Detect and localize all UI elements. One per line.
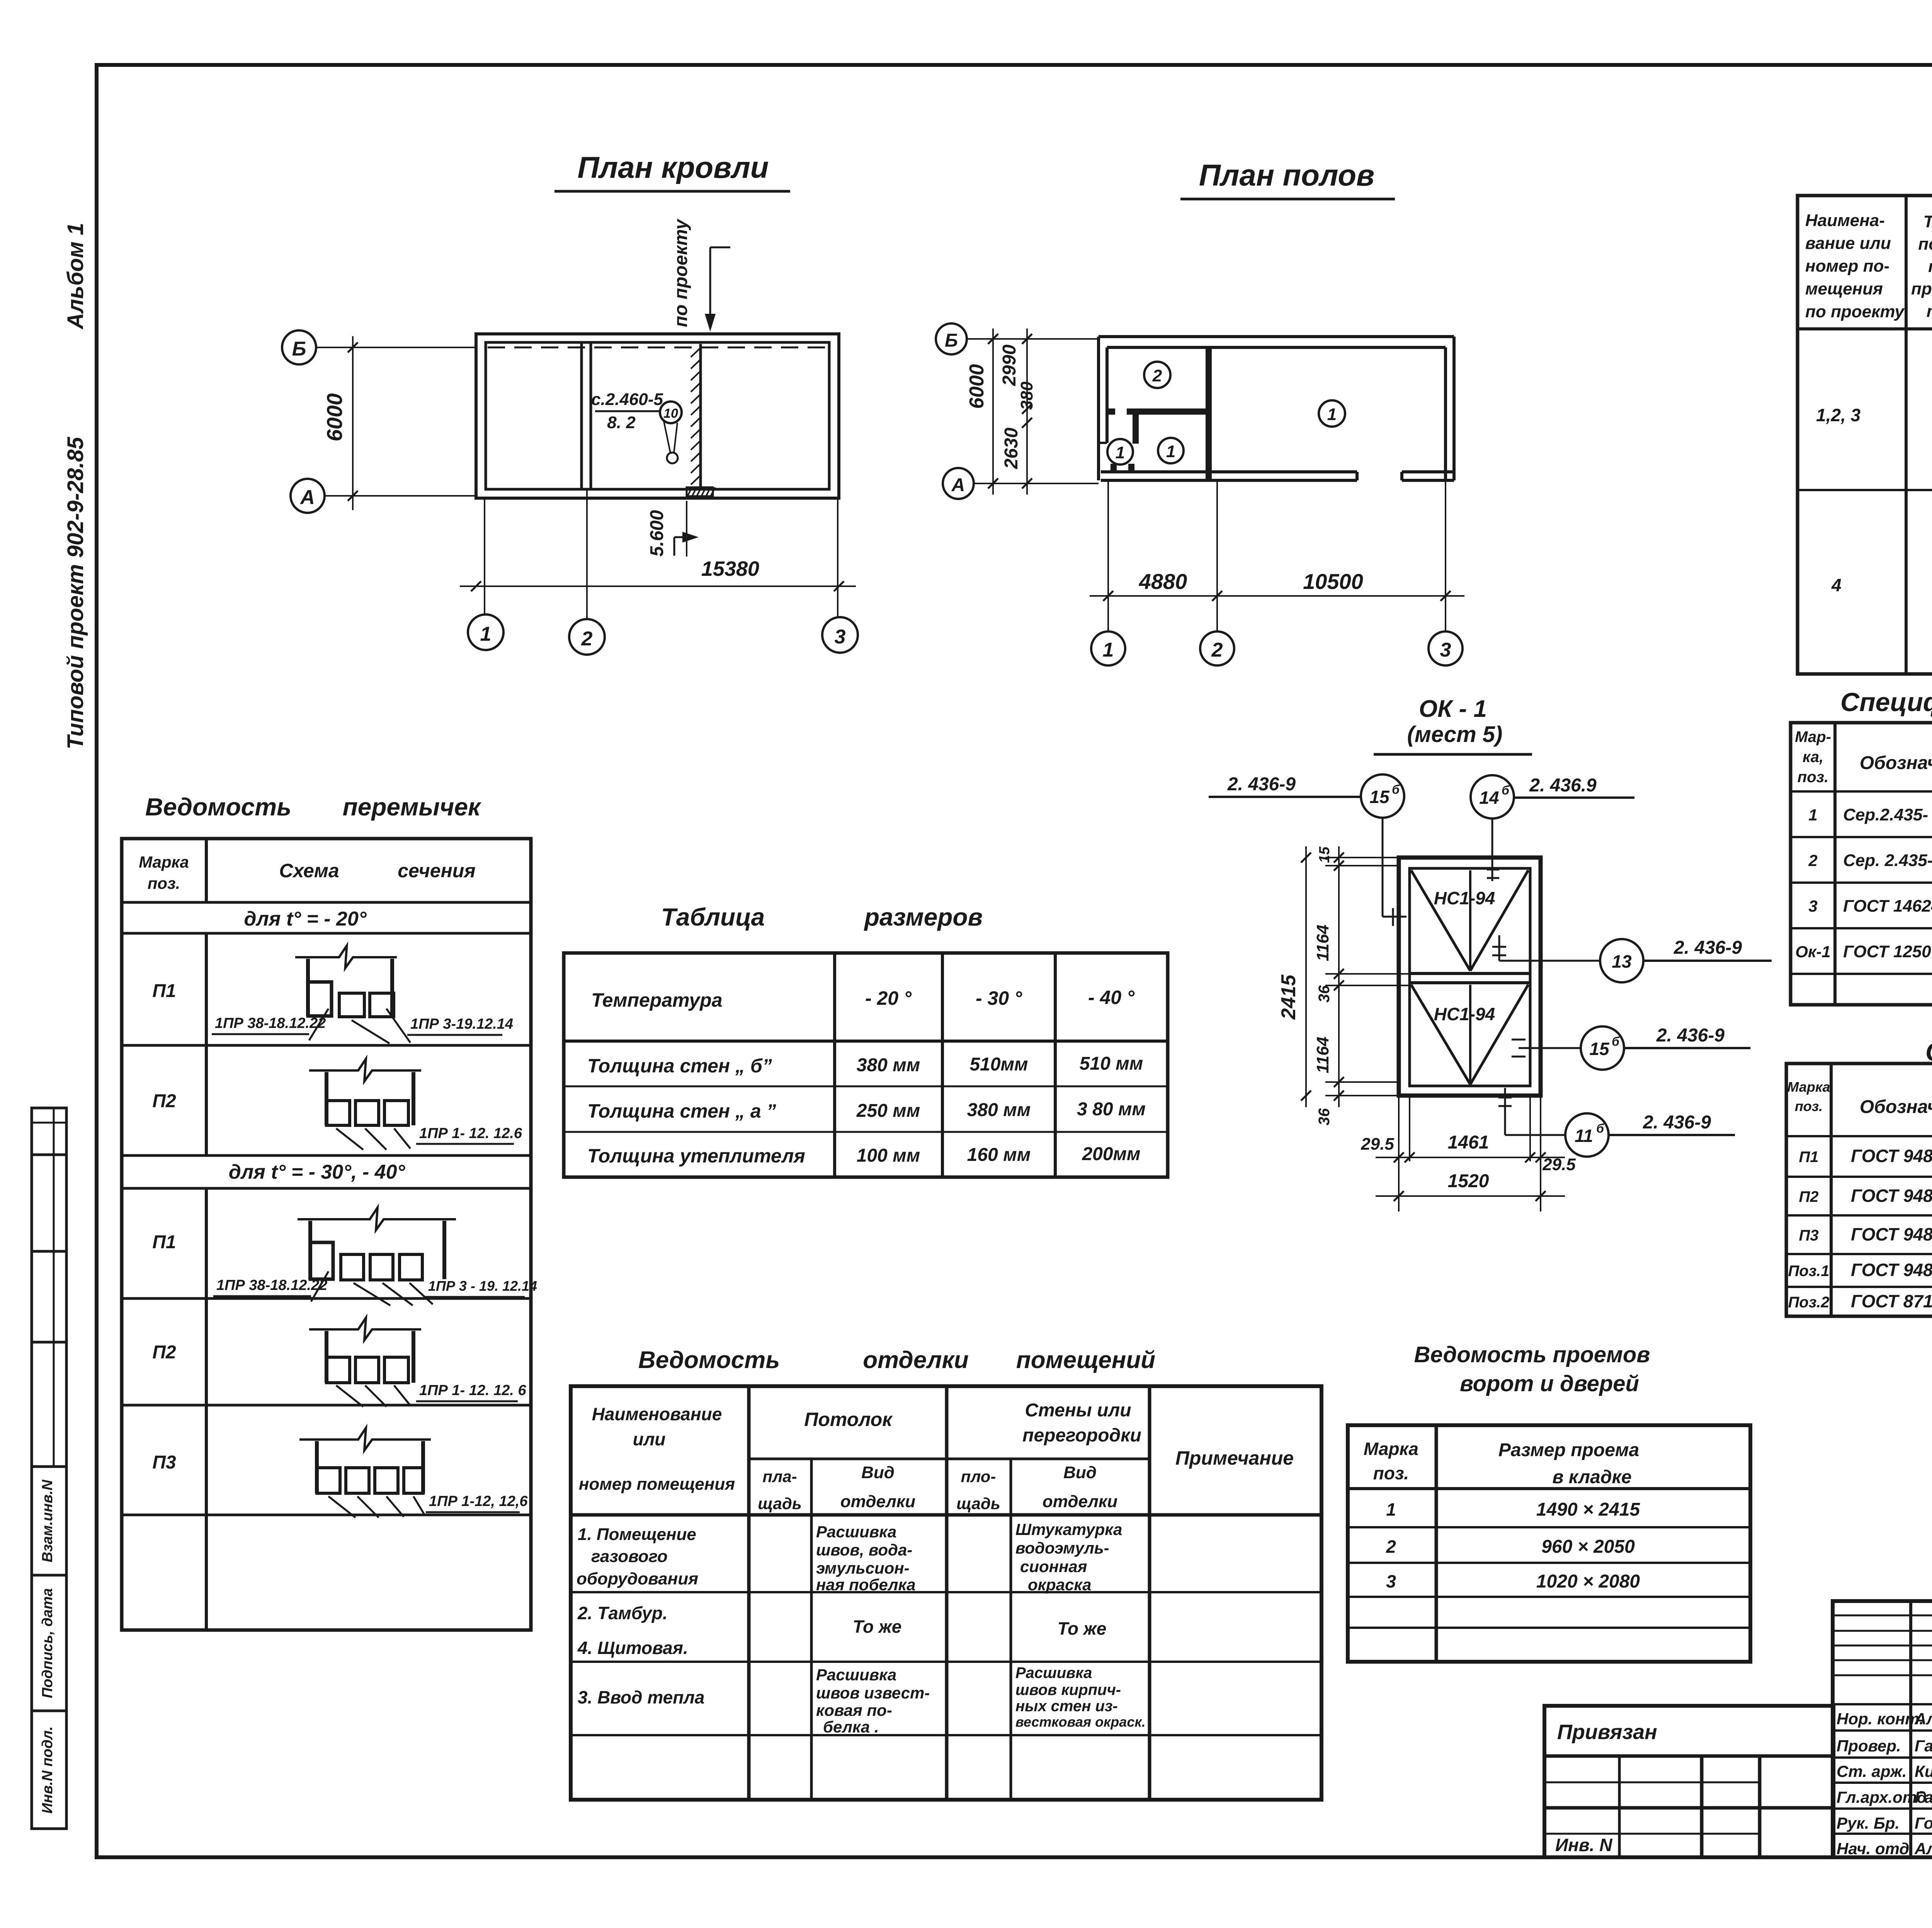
floor room circle 1 (small) [1158,438,1184,463]
svg-text:Ведомость проемов: Ведомость проемов [1414,1342,1650,1367]
svg-text:Провер.: Провер. [1837,1737,1901,1755]
scheme П1 (-30,-40) [213,1208,537,1305]
svg-text:1ПР 3 - 19. 12.14: 1ПР 3 - 19. 12.14 [428,1278,537,1294]
title Ведомость проемов ворот и дверей [1414,1342,1650,1396]
svg-text:510мм: 510мм [969,1054,1028,1075]
П1 row label [152,981,176,1001]
svg-text:белка .: белка . [823,1718,879,1736]
svg-text:П2: П2 [152,1091,176,1111]
svg-text:Ведомость: Ведомость [145,793,291,821]
Ведомость отделки row 1 [577,1520,1122,1594]
svg-text:в кладке: в кладке [1552,1467,1631,1487]
svg-text:Примечание: Примечание [1175,1447,1294,1469]
svg-text:2: 2 [1808,851,1817,870]
svg-text:1164: 1164 [1313,1037,1332,1074]
svg-text:П3: П3 [1799,1227,1818,1244]
scheme П2 (-30,-40) [309,1318,526,1407]
svg-text:1ПР 1- 12. 12. 6: 1ПР 1- 12. 12. 6 [419,1382,526,1399]
svg-text:вестковая окраск.: вестковая окраск. [1015,1714,1146,1730]
title Ведомость отделки помещений [638,1347,1155,1373]
svg-text:пла-: пла- [762,1467,797,1486]
svg-text:Температура: Температура [591,989,723,1011]
table Ведомость проемов grid [1348,1425,1750,1662]
svg-text:1,2, 3: 1,2, 3 [1816,405,1861,425]
svg-text:НС1-94: НС1-94 [1434,888,1495,908]
svg-text:160 мм: 160 мм [967,1145,1031,1165]
svg-text:ГОСТ 14624- 69: ГОСТ 14624- 69 [1843,897,1932,916]
svg-text:для t° = - 30°, - 40°: для t° = - 30°, - 40° [229,1161,406,1183]
svg-text:номер помещения: номер помещения [579,1475,735,1494]
floor plan partition axis2 [1206,347,1212,480]
title Спецификация элементов заполнения проемов [1840,687,1932,717]
svg-text:Галактионов: Галактионов [1915,1737,1932,1755]
svg-text:А: А [299,486,315,509]
svg-text:380 мм: 380 мм [857,1055,920,1075]
П1 (-30) row label [152,1232,176,1252]
svg-text:Поз.2: Поз.2 [1788,1294,1830,1311]
svg-text:П1: П1 [1799,1149,1818,1166]
svg-text:То же: То же [853,1617,902,1637]
floor axis circle 3 [1429,631,1463,665]
callout 14б top with 2.436.9 [1471,775,1634,881]
svg-text:15: 15 [1316,846,1333,863]
svg-text:щадь: щадь [956,1494,1000,1513]
svg-text:Толщина стен „ а ”: Толщина стен „ а ” [587,1100,776,1122]
svg-text:Схема: Схема [279,860,339,881]
svg-text:сечения: сечения [398,860,476,881]
svg-text:Альтшумер: Альтшумер [1914,1840,1932,1858]
svg-text:15380: 15380 [701,557,759,580]
svg-text:Типовой проект 902-9-28.85: Типовой проект 902-9-28.85 [63,437,88,749]
svg-text:250 мм: 250 мм [856,1101,920,1121]
svg-text:с.2.460-5: с.2.460-5 [591,390,663,409]
svg-text:10500: 10500 [1303,569,1363,594]
svg-text:Нор. конт.: Нор. конт. [1837,1710,1924,1728]
svg-text:3. Ввод тепла: 3. Ввод тепла [578,1687,705,1707]
svg-text:б: б [1612,1035,1620,1048]
svg-text:2: 2 [1152,366,1162,385]
svg-text:ных стен из-: ных стен из- [1015,1698,1118,1715]
svg-text:2. 436.9: 2. 436.9 [1529,775,1597,796]
svg-text:отделки: отделки [863,1347,969,1373]
svg-text:Толщина утеплителя: Толщина утеплителя [587,1145,805,1167]
svg-text:960 × 2050: 960 × 2050 [1541,1537,1635,1557]
svg-text:газового: газового [591,1547,668,1566]
svg-text:Инв. N: Инв. N [1555,1835,1612,1855]
svg-text:11: 11 [1575,1126,1593,1146]
svg-text:2415: 2415 [1277,974,1300,1020]
left strip cell Взам.инв.N [32,1467,66,1575]
svg-text:Расшивка: Расшивка [816,1666,896,1684]
Спецификация элементов header [1795,728,1932,788]
svg-text:2. 436-9: 2. 436-9 [1673,938,1742,958]
svg-text:(мест 5): (мест 5) [1407,722,1503,747]
callout 11б bottom with 2.436-9 [1498,1088,1735,1157]
svg-text:поз.: поз. [1795,1098,1823,1114]
roof axis circle 3 [822,617,858,653]
svg-text:эмульсион-: эмульсион- [816,1559,910,1577]
svg-text:оборудования: оборудования [577,1569,698,1588]
svg-text:Марка: Марка [1787,1079,1830,1095]
svg-text:Нач. отд.: Нач. отд. [1837,1840,1914,1858]
title Спецификация перемычек [1925,1037,1932,1067]
callout 15б top-left with 2.436-9 [1209,774,1406,926]
svg-text:Наименование: Наименование [592,1404,722,1424]
svg-text:1: 1 [1166,442,1175,461]
OK-1 window frame [1399,858,1541,1096]
svg-text:1: 1 [1808,806,1817,824]
svg-text:1ПР 1- 12. 12.6: 1ПР 1- 12. 12.6 [419,1125,522,1142]
svg-text:Размер проема: Размер проема [1498,1440,1639,1460]
svg-text:380 мм: 380 мм [967,1100,1031,1120]
callout 13 right with 2.436-9 [1492,935,1772,982]
svg-text:Вид: Вид [1063,1463,1097,1482]
svg-text:1520: 1520 [1448,1171,1489,1191]
svg-text:ту: ту [1927,302,1932,321]
svg-text:б: б [1596,1121,1604,1135]
signature table labels [1837,1710,1932,1858]
left strip cell Подпись, дата [32,1575,66,1711]
left margin caption: Типовой проект 902-9-28.85 [63,437,88,749]
Ведомость проемов rows [1386,1499,1640,1592]
П3 row label [152,1452,176,1473]
svg-text:Гольдина: Гольдина [1915,1814,1932,1832]
svg-text:НС1-94: НС1-94 [1434,1004,1495,1024]
svg-text:ная побелка: ная побелка [816,1576,916,1594]
floor plan room2 partition [1107,412,1209,444]
svg-text:Инв.N подл.: Инв.N подл. [39,1726,56,1814]
svg-text:Кибальчин: Кибальчин [1915,1762,1932,1780]
roof vertical dimension 6000 [322,336,358,510]
svg-text:П1: П1 [152,1232,176,1252]
svg-text:Привязан: Привязан [1557,1720,1657,1744]
axis circle А (roof) [291,479,476,513]
svg-text:Поз.1: Поз.1 [1788,1263,1830,1280]
svg-text:Потолок: Потолок [804,1409,893,1430]
OK-1 lower sash НС1-94 [1411,985,1528,1084]
floor plan walls [1099,337,1454,480]
floor left dimensions 2990/380/2630 [999,328,1036,495]
floor axis circle 2 [1200,631,1234,665]
svg-text:1461: 1461 [1448,1132,1489,1153]
svg-text:поз.: поз. [1798,769,1828,786]
Спецификация элементов rows [1795,795,1932,961]
svg-text:Марка: Марка [1364,1439,1418,1459]
band для t = -30 -40 [229,1161,406,1183]
floor plan title [1180,158,1395,199]
svg-text:швов извест-: швов извест- [816,1684,930,1702]
svg-text:2. Тамбур.: 2. Тамбур. [577,1603,668,1623]
svg-text:перемычек: перемычек [343,793,482,821]
svg-text:для t° = - 20°: для t° = - 20° [244,908,367,930]
scheme П1 (-20) [212,946,513,1043]
svg-text:1. Помещение: 1. Помещение [578,1525,696,1544]
svg-text:вание или: вание или [1805,234,1891,253]
svg-text:П2: П2 [152,1342,176,1363]
П2 (-30) row label [152,1342,176,1363]
svg-text:13: 13 [1612,951,1632,972]
svg-text:Мар-: Мар- [1795,728,1831,745]
svg-text:2: 2 [581,628,593,650]
table Таблица размеров grid [564,953,1168,1177]
OK-1 title [1374,696,1532,754]
svg-text:мещения: мещения [1805,279,1883,298]
svg-text:1: 1 [1327,405,1337,424]
svg-text:100 мм: 100 мм [857,1145,920,1166]
svg-text:проек-: проек- [1911,279,1932,298]
svg-text:10: 10 [663,406,678,421]
svg-text:водоэмуль-: водоэмуль- [1015,1539,1109,1557]
svg-text:Б: Б [292,338,306,360]
svg-text:200мм: 200мм [1082,1144,1140,1164]
svg-text:3 80 мм: 3 80 мм [1077,1099,1146,1120]
svg-text:8. 2: 8. 2 [607,413,636,432]
svg-text:4. Щитовая.: 4. Щитовая. [577,1638,688,1658]
svg-text:ворот и дверей: ворот и дверей [1460,1371,1639,1396]
svg-text:ковая по-: ковая по- [816,1701,892,1719]
svg-text:1ПР 38-18.12.22: 1ПР 38-18.12.22 [216,1277,327,1293]
Ведомость перемычек header [139,853,476,892]
floor room circle 1 (large) [1319,400,1345,427]
title Таблица размеров [661,903,983,931]
svg-text:3: 3 [1440,639,1451,661]
по проекту label with arrow [671,218,730,332]
svg-text:3: 3 [1808,897,1817,915]
table Спецификация перемычек grid [1786,1064,1932,1316]
svg-text:3: 3 [835,626,846,648]
svg-text:Альбом 1: Альбом 1 [63,223,88,330]
svg-text:Расшивка: Расшивка [816,1523,896,1541]
svg-text:П2: П2 [1799,1188,1818,1205]
svg-text:ка,: ка, [1803,749,1823,766]
svg-text:6000: 6000 [322,393,347,442]
svg-text:Б: Б [945,330,958,351]
svg-text:ГОСТ 12506- 67: ГОСТ 12506- 67 [1843,942,1932,961]
roof plan dashed eaves line [488,347,827,349]
svg-text:1ПР 3-19.12.14: 1ПР 3-19.12.14 [410,1016,513,1032]
svg-text:2. 436-9: 2. 436-9 [1656,1025,1725,1046]
svg-text:поз.: поз. [148,874,180,892]
5.600 mark [647,501,699,556]
svg-text:отделки: отделки [1043,1492,1117,1511]
svg-text:380: 380 [1017,381,1036,410]
callout 15б right with 2.436-9 [1512,1025,1750,1070]
svg-text:Толщина стен „ б”: Толщина стен „ б” [587,1055,772,1077]
svg-text:Спецификация: Спецификация [1840,687,1932,717]
svg-text:3: 3 [1386,1571,1396,1591]
title Ведомость перемычек [145,793,482,821]
svg-text:2. 436-9: 2. 436-9 [1643,1112,1711,1133]
svg-text:1020 × 2080: 1020 × 2080 [1536,1571,1640,1592]
roof plan hatched wall line [691,344,701,487]
roof plan outline [476,334,839,498]
svg-text:или: или [633,1429,666,1449]
svg-text:Рук. Бр.: Рук. Бр. [1837,1814,1900,1832]
roof threshold hatched block [687,487,715,496]
svg-text:1: 1 [1116,443,1125,462]
axis circle Б (roof) [282,330,476,364]
svg-text:4: 4 [1831,575,1842,595]
table Ведомость перемычек grid [122,839,531,1630]
roof plan title [554,150,790,191]
OK-1 upper sash НС1-94 [1411,870,1528,971]
callout с.2.460-5 / 8.2 with circle 10 [591,390,682,463]
floor bottom dimensions 4880 / 10500 [1090,480,1464,631]
table Спецификация элементов grid [1791,723,1932,1005]
svg-text:Тип: Тип [1923,212,1932,231]
svg-text:36: 36 [1316,985,1333,1002]
svg-text:2: 2 [1386,1537,1396,1557]
left strip cell Инв.N подл. [32,1711,66,1829]
svg-text:Обозначение: Обозначение [1860,753,1932,773]
Спецификация перемычек header [1787,1075,1932,1136]
svg-text:б: б [1392,783,1400,796]
svg-text:Штукатурка: Штукатурка [1015,1520,1122,1538]
svg-text:15: 15 [1589,1039,1610,1059]
svg-text:4880: 4880 [1139,569,1187,594]
svg-text:Таблица: Таблица [661,903,765,931]
Спецификация перемычек rows [1788,1136,1932,1311]
svg-text:2630: 2630 [1001,427,1022,469]
svg-text:510 мм: 510 мм [1080,1053,1143,1074]
svg-text:ГОСТ 948-76: ГОСТ 948-76 [1851,1224,1932,1244]
roof bottom dimension 15380 [460,489,856,618]
roof axis circle 1 [468,614,503,650]
left stamp strip boxes [32,1108,66,1467]
axis circle Б (floor) [936,323,1099,354]
svg-text:швов кирпич-: швов кирпич- [1015,1681,1121,1698]
table Ведомость отделки grid [571,1386,1321,1800]
svg-text:пола: пола [1918,235,1932,254]
svg-text:1: 1 [480,623,492,645]
svg-text:отделки: отделки [840,1492,915,1511]
svg-text:План кровли: План кровли [578,150,769,184]
svg-text:перегородки: перегородки [1022,1425,1141,1446]
floor left dimension 6000 [966,328,998,495]
title block signature table [1833,1601,1932,1857]
svg-text:1: 1 [1386,1499,1396,1520]
svg-text:- 30 °: - 30 ° [976,987,1022,1009]
svg-text:1490 × 2415: 1490 × 2415 [1536,1499,1641,1520]
svg-text:Ведомость: Ведомость [638,1347,780,1373]
svg-text:2990: 2990 [999,344,1020,386]
svg-text:2. 436-9: 2. 436-9 [1227,774,1296,795]
svg-text:окраска: окраска [1028,1576,1091,1594]
Ведомость проемов header [1364,1439,1639,1487]
svg-text:Ок-1: Ок-1 [1795,943,1830,961]
title block Привязан box [1544,1706,1833,1857]
svg-text:План полов: План полов [1199,158,1374,192]
svg-text:пло-: пло- [961,1467,996,1486]
svg-text:Альтшумер: Альтшумер [1914,1710,1932,1728]
table Экспликация полов grid [1798,196,1932,674]
svg-text:по: по [1928,257,1932,276]
svg-text:ОК - 1: ОК - 1 [1419,696,1487,722]
Экспликация header texts [1805,211,1932,321]
svg-text:Обозначение: Обозначение [1860,1097,1932,1117]
svg-text:29.5: 29.5 [1361,1135,1394,1154]
svg-text:- 20 °: - 20 ° [865,987,912,1009]
svg-text:сионная: сионная [1020,1557,1087,1576]
band для t = -20 [244,908,367,930]
svg-text:Марка: Марка [139,853,189,871]
svg-text:5.600: 5.600 [647,510,667,556]
svg-text:Гл.арх.отд: Гл.арх.отд [1837,1788,1927,1806]
Таблица размеров texts [587,987,1146,1167]
Экспликация row 1 [1816,344,1932,479]
roof axis circle 2 [569,619,605,655]
floor axis circle 1 [1091,631,1125,665]
svg-text:помещений: помещений [1016,1347,1155,1373]
svg-text:номер по-: номер по- [1805,257,1889,276]
svg-text:- 40 °: - 40 ° [1088,987,1135,1008]
Ведомость отделки row 2 [577,1603,1106,1658]
Экспликация row 2 [1831,509,1932,643]
svg-text:Сер. 2.435- 6 8.2: Сер. 2.435- 6 8.2 [1843,851,1932,870]
svg-text:П3: П3 [152,1452,176,1473]
svg-text:Наимена-: Наимена- [1805,211,1885,230]
svg-text:1164: 1164 [1313,925,1332,961]
svg-text:Ст. арж.: Ст. арж. [1837,1762,1907,1780]
svg-text:по проекту: по проекту [1805,302,1905,321]
svg-text:щадь: щадь [758,1494,802,1513]
svg-text:2: 2 [1211,639,1223,661]
svg-text:ГОСТ 8717- 81: ГОСТ 8717- 81 [1851,1291,1932,1311]
svg-text:Расшивка: Расшивка [1015,1664,1092,1681]
OK-1 left dimension 2415 [1277,846,1311,1107]
OK-1 bottom dimensions [1361,1098,1576,1212]
floor room circle 2 [1144,362,1170,388]
svg-text:швов, вода-: швов, вода- [816,1541,912,1559]
scheme П2 (-20) [309,1059,522,1150]
svg-text:14: 14 [1479,788,1499,808]
svg-text:6000: 6000 [966,364,988,409]
svg-text:Галактионов: Галактионов [1915,1788,1932,1806]
svg-text:ГОСТ 948-76: ГОСТ 948-76 [1851,1186,1932,1206]
scheme П3 [299,1428,528,1518]
roof plan wall at axis 2 [582,342,591,489]
Ведомость отделки header [579,1400,1294,1513]
svg-text:ГОСТ 948-76: ГОСТ 948-76 [1851,1260,1932,1280]
axis circle А (floor) [943,468,1099,499]
floor room circle 1 (tambour) [1107,439,1133,465]
svg-text:36: 36 [1316,1108,1333,1125]
svg-text:1: 1 [1103,639,1114,661]
svg-text:Стены или: Стены или [1025,1400,1131,1421]
svg-text:1ПР 38-18.12.22: 1ПР 38-18.12.22 [215,1015,326,1031]
svg-text:б: б [1502,783,1510,797]
OK-1 left segment dimensions [1313,846,1410,1125]
svg-text:размеров: размеров [864,903,983,931]
svg-text:29.5: 29.5 [1542,1155,1576,1174]
svg-text:Вид: Вид [861,1463,895,1482]
svg-text:Подпись, дата: Подпись, дата [39,1588,56,1698]
left margin caption: Альбом 1 [63,223,88,330]
svg-text:То же: То же [1058,1618,1107,1639]
svg-text:по проекту: по проекту [671,218,691,327]
svg-text:П1: П1 [152,981,176,1001]
svg-text:А: А [951,475,965,495]
svg-text:поз.: поз. [1373,1463,1409,1483]
Ведомость отделки row 3 [578,1664,1146,1736]
П2 row label [152,1091,176,1111]
svg-text:ГОСТ 948-76: ГОСТ 948-76 [1851,1146,1932,1166]
svg-text:Сер.2.435- 6 8.2: Сер.2.435- 6 8.2 [1843,805,1932,824]
svg-text:1ПР 1-12, 12,6: 1ПР 1-12, 12,6 [429,1493,528,1509]
svg-text:Взам.инв.N: Взам.инв.N [39,1479,56,1562]
svg-text:15: 15 [1369,787,1390,807]
